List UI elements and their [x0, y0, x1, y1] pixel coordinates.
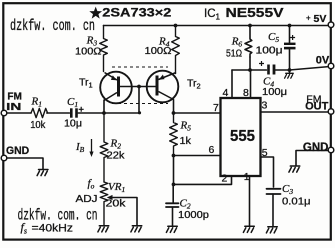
wire pin 3 [261, 111, 329, 113]
wire R6 to 0V wire and pin 8 [249, 57, 252, 98]
wire GND right [296, 151, 328, 166]
wire pin 6 [174, 155, 221, 157]
junction R4/top rail [174, 24, 178, 28]
ground under VR1 [98, 226, 109, 232]
transistor Tr2 [147, 71, 179, 103]
small ground at C5/C4 node [285, 73, 294, 78]
svg-text:1k: 1k [180, 136, 193, 147]
transistor Tr1 collector wire [103, 100, 105, 113]
svg-text:4: 4 [223, 87, 229, 99]
wire GND left [7, 158, 43, 169]
ground under VR1 wiper [131, 226, 142, 232]
Tr2 collector diagonal [159, 92, 174, 100]
terminal FM OUT [328, 109, 334, 115]
capacitor C1 plates [70, 108, 78, 117]
svg-text:dzkfw. com. cn: dzkfw. com. cn [10, 17, 95, 35]
capacitor C5 branch wire [289, 26, 291, 71]
svg-text:6: 6 [209, 144, 215, 156]
ground under C3 [266, 227, 277, 233]
svg-text:3: 3 [262, 100, 268, 112]
svg-text:GND: GND [303, 142, 329, 154]
IC 555 box [221, 98, 261, 176]
svg-text:0.01μ: 0.01μ [282, 197, 311, 208]
junction C5/top rail [288, 24, 292, 28]
svg-text:10μ: 10μ [64, 119, 82, 130]
wire Tr2 collector down [173, 100, 175, 114]
capacitor C2 plates [166, 203, 179, 207]
capacitor C3 plates [267, 189, 281, 194]
svg-text:7: 7 [213, 102, 219, 114]
ground under right GND [289, 166, 300, 172]
junction C5 bottom at 0V wire [288, 68, 292, 72]
svg-text:5: 5 [262, 147, 268, 159]
wire pin 7 [174, 112, 221, 114]
capacitor C4 plates (series in 0V wire) [267, 65, 275, 75]
svg-text:=40kHz: =40kHz [32, 223, 74, 235]
wire +5V top rail [104, 25, 331, 27]
resistor R1 [31, 108, 48, 117]
wire pin 1 to ground [249, 177, 251, 227]
Tr1 emitter diagonal [105, 73, 118, 81]
svg-text:5V: 5V [314, 13, 327, 25]
terminal 0V [328, 63, 334, 69]
svg-text:22k: 22k [107, 151, 126, 162]
svg-text:FM: FM [7, 91, 22, 102]
capacitor C2 wires [172, 184, 175, 226]
junction R5/pin 6 node [172, 154, 176, 158]
Tr2 base bar [156, 76, 159, 96]
resistor R3 [100, 26, 108, 72]
junction base tie node [137, 85, 141, 89]
svg-text:0V: 0V [316, 54, 330, 66]
junction base drop at input wire [138, 111, 141, 114]
current IB arrow [91, 139, 93, 153]
dashed pair outline bottom [112, 103, 168, 105]
svg-text:1000p: 1000p [178, 210, 209, 221]
wire base tie [120, 86, 156, 88]
resistor R2 [100, 113, 108, 182]
svg-text:OUT: OUT [305, 101, 329, 113]
capacitor C5 plus [290, 35, 295, 40]
wire base down to input node [138, 87, 140, 113]
svg-text:100μ: 100μ [256, 46, 283, 57]
svg-text:10k: 10k [30, 120, 46, 131]
wire 0V rail with slope [276, 67, 331, 71]
resistor R6 [245, 26, 252, 58]
ground under C2 [166, 226, 177, 232]
svg-text:555: 555 [230, 128, 255, 145]
wire FM IN to R1 [7, 112, 31, 114]
wire pin 5 to C3 [261, 157, 274, 187]
Tr2 emitter diagonal [159, 73, 177, 80]
junction pin 2/C2 node [172, 183, 176, 187]
dashed pair outline top [112, 66, 168, 68]
wire pin 2 [174, 176, 232, 184]
capacitor C3 lower wire [272, 194, 274, 227]
svg-text:100Ω: 100Ω [75, 47, 102, 58]
svg-text:ADJ: ADJ [76, 194, 98, 205]
terminal GND left [1, 155, 7, 161]
transistor Tr1 [100, 72, 132, 104]
Tr1 base bar [117, 77, 120, 97]
terminal +5V [328, 22, 334, 28]
VR1 wiper wire [110, 198, 137, 226]
svg-text:100Ω: 100Ω [145, 46, 173, 57]
ground symbols [37, 73, 300, 233]
svg-text:1: 1 [244, 171, 250, 183]
svg-text:8: 8 [243, 87, 249, 99]
Tr2 emitter arrow [159, 75, 165, 80]
svg-text:2SA733×2: 2SA733×2 [102, 6, 171, 20]
svg-text:GND: GND [6, 145, 29, 157]
VR1 wiper arrowhead [107, 195, 113, 200]
junction R6/top rail [248, 24, 252, 28]
svg-text:100μ: 100μ [262, 87, 287, 98]
wire R1 to C1 [47, 112, 70, 114]
svg-text:51Ω: 51Ω [226, 49, 242, 60]
junction R6/pin 8 at 0V wire [248, 68, 252, 72]
title star [89, 7, 102, 19]
capacitor C1 plus [79, 107, 84, 112]
Tr1 emitter arrow [111, 75, 117, 80]
wire pin4 drop from 0V-wire corner [231, 70, 233, 98]
wire C1 to base node [78, 112, 139, 114]
junction input node (R1-C1/R2/Tr1 collector) [102, 111, 106, 115]
ground under left GND [37, 170, 48, 176]
junction Tr2 collector/pin 7 node [172, 111, 176, 115]
svg-text:NE555V: NE555V [226, 6, 285, 20]
svg-text:20k: 20k [106, 199, 127, 210]
terminal FM IN [1, 110, 7, 116]
svg-text:IN: IN [6, 102, 21, 113]
ground under pin 1 [243, 226, 254, 232]
svg-text:2: 2 [222, 172, 228, 184]
resistor R5 [170, 113, 178, 156]
potentiometer VR1 [100, 182, 108, 226]
wire C5 node small ground stub [289, 70, 291, 73]
Tr1 collector diagonal [104, 93, 117, 101]
svg-text:+: + [306, 14, 311, 23]
capacitor C5 plates [284, 43, 296, 50]
wire R5 node down to pin2 node [173, 156, 175, 185]
resistor R4 [172, 26, 180, 74]
terminal GND right [328, 147, 334, 153]
capacitor C4 plus [259, 61, 264, 66]
